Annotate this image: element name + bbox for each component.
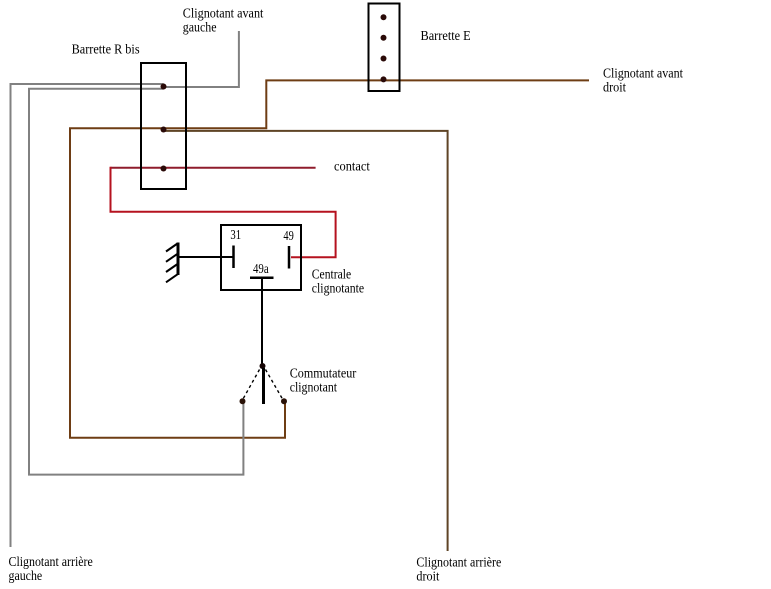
barrette E pin 4 xyxy=(381,76,387,82)
svg-text:Barrette R bis: Barrette R bis xyxy=(72,42,140,57)
barrette R bis pin 3 xyxy=(161,166,167,172)
svg-text:Barrette E: Barrette E xyxy=(421,29,471,44)
wire: front-left indicator (gray) from Barrette R bis pin 1 right then up xyxy=(164,31,239,87)
svg-text:contact: contact xyxy=(334,160,370,175)
barrette E pin 2 xyxy=(381,35,387,41)
wire: front-right indicator feed (brown) from Barrette R bis pin 2 up and right through Barrette E pin 4 xyxy=(70,80,589,437)
svg-text:droit: droit xyxy=(416,570,439,585)
svg-text:droit: droit xyxy=(603,81,626,96)
svg-text:Commutateur: Commutateur xyxy=(290,366,357,381)
barrette R bis pin 2 xyxy=(161,127,167,133)
svg-text:Clignotant arrière: Clignotant arrière xyxy=(416,556,501,571)
wire: contact feed (dark red) through Barrette R bis pin 3 xyxy=(111,167,316,169)
svg-text:Clignotant arrière: Clignotant arrière xyxy=(9,555,93,570)
barrette R bis pin 1 xyxy=(161,84,167,90)
commutateur pivot node xyxy=(260,363,266,369)
pin 49 terminal tick xyxy=(288,246,291,269)
svg-text:clignotante: clignotante xyxy=(312,281,364,296)
commutateur left contact node xyxy=(240,398,246,404)
svg-text:gauche: gauche xyxy=(183,20,217,35)
centrale clignotante box U1 xyxy=(221,225,301,290)
svg-text:Clignotant avant: Clignotant avant xyxy=(603,67,683,82)
wire: pin 49a down to commutateur pivot xyxy=(261,279,263,364)
svg-text:Centrale: Centrale xyxy=(312,268,351,283)
svg-text:Clignotant avant: Clignotant avant xyxy=(183,6,264,21)
barrette E pin 1 xyxy=(381,14,387,20)
barrette R bis box xyxy=(141,63,186,189)
commutateur right contact node xyxy=(281,398,287,404)
wire: commutateur left contact (gray) from Barrette R bis pin 1 down and across xyxy=(29,89,243,475)
wire: ground to pin 31 xyxy=(179,256,233,258)
wire: supply to centrale pin 49 (red) xyxy=(111,167,336,257)
commutateur lever xyxy=(262,368,265,404)
svg-text:clignotant: clignotant xyxy=(290,380,337,395)
commutateur dashed throw left xyxy=(243,370,260,400)
svg-text:49: 49 xyxy=(283,229,293,244)
barrette E pin 3 xyxy=(381,56,387,62)
ground symbol xyxy=(166,243,178,283)
commutateur dashed throw right xyxy=(266,370,283,400)
svg-text:31: 31 xyxy=(230,228,241,243)
barrette E box xyxy=(369,4,400,92)
pin 49a terminal tick xyxy=(250,276,274,279)
svg-text:49a: 49a xyxy=(253,262,269,277)
svg-text:gauche: gauche xyxy=(9,569,43,584)
wire: rear-right indicator (dark brown) from Barrette R bis pin 2 right and down xyxy=(164,131,448,551)
wire: rear-left indicator (gray) from Barrette R bis pin 1 left then down xyxy=(11,84,164,547)
pin 31 terminal tick xyxy=(232,246,235,269)
